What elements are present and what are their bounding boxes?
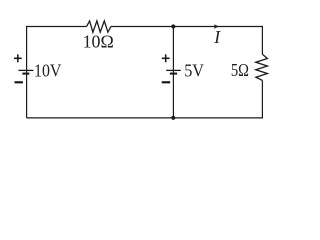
battery V2 minus sign xyxy=(162,81,171,83)
wire top-right segment xyxy=(111,27,263,55)
wire right-bottom segment xyxy=(27,80,263,118)
node junction dot bottom xyxy=(171,116,175,120)
battery V2 short plate xyxy=(170,73,177,75)
svg-text:10V: 10V xyxy=(34,60,62,80)
wire top-left segment xyxy=(27,27,87,118)
current arrow head xyxy=(214,24,219,28)
battery V1 minus sign xyxy=(15,81,23,83)
battery V1 short plate xyxy=(22,73,29,75)
resistor R2 5ohm zigzag xyxy=(256,54,268,80)
battery V2 plus sign xyxy=(162,54,170,62)
svg-text:5Ω: 5Ω xyxy=(231,60,249,80)
resistor R1 10ohm zigzag xyxy=(87,21,111,32)
svg-text:10Ω: 10Ω xyxy=(83,31,114,51)
wire middle branch xyxy=(172,27,174,118)
battery V1 long plate xyxy=(18,69,33,71)
svg-text:5V: 5V xyxy=(184,60,204,80)
svg-text:I: I xyxy=(213,27,221,47)
node junction dot top xyxy=(171,24,175,28)
battery V2 long plate xyxy=(166,69,181,71)
battery V1 plus sign xyxy=(14,54,22,62)
